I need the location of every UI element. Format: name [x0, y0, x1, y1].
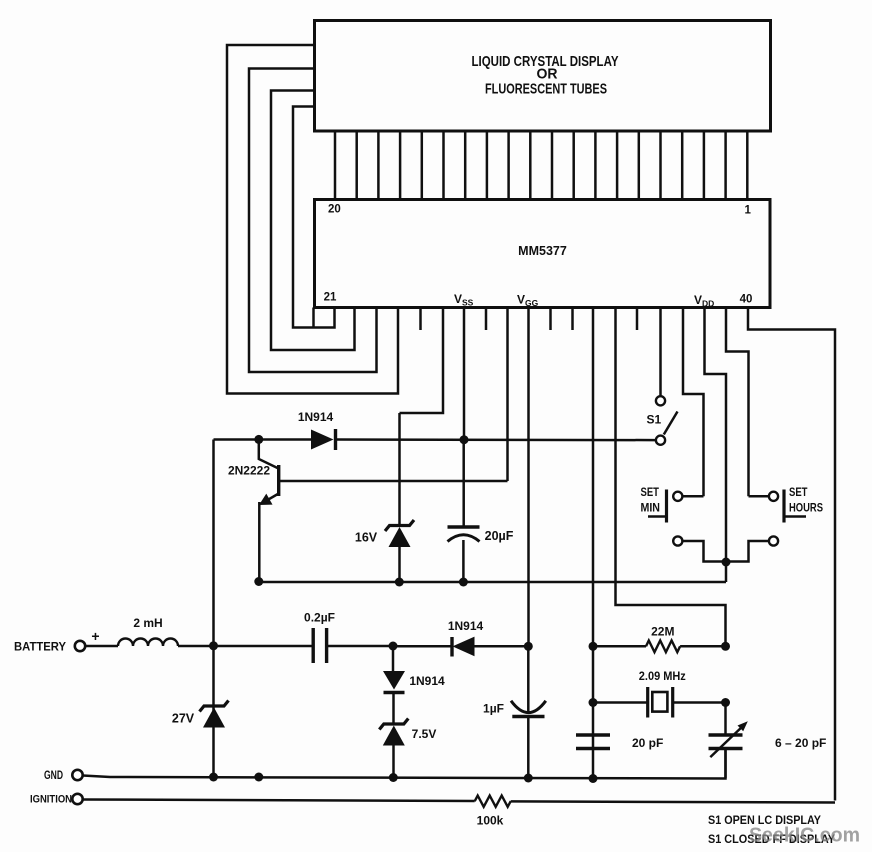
- stub pin at x=572.5: [571, 308, 574, 331]
- capacitor C1 20uF top lead: [462, 440, 465, 527]
- node dot battery riser: [209, 641, 218, 650]
- node dot crystal left: [589, 698, 598, 707]
- svg-text:S1: S1: [646, 413, 661, 427]
- wire osc pin down to crystal net left: [592, 308, 595, 779]
- wire L1 to battery node: [178, 645, 214, 648]
- svg-text:SeekIC.com: SeekIC.com: [749, 825, 860, 847]
- svg-text:GND: GND: [44, 770, 63, 782]
- svg-text:1N914: 1N914: [448, 619, 484, 633]
- wire SET HOURS bottom contact to junction: [726, 541, 769, 562]
- svg-text:FLUORESCENT TUBES: FLUORESCENT TUBES: [485, 81, 607, 98]
- stub pin at x=637: [636, 308, 639, 331]
- node dot 22M right: [721, 642, 730, 651]
- wire nested bus N3: [249, 69, 377, 373]
- diode D2 1N914 (horizontal, battery row): [450, 637, 453, 657]
- switch S1 bottom contact: [656, 436, 665, 445]
- wire D1 cathode to S1: [336, 438, 656, 441]
- svg-text:BATTERY: BATTERY: [14, 640, 66, 654]
- terminal GND: [72, 770, 82, 780]
- transistor Q1 emitter arrow: [259, 494, 273, 505]
- svg-text:MIN: MIN: [641, 503, 661, 515]
- svg-text:20: 20: [328, 204, 341, 216]
- node dot 20uF row582: [459, 578, 468, 587]
- wire battery riser to D1 row: [214, 438, 312, 441]
- svg-text:20µF: 20µF: [485, 529, 514, 543]
- svg-text:16V: 16V: [355, 531, 378, 545]
- node dot GND 1uF: [524, 774, 533, 783]
- wire nested bus N4: [227, 45, 398, 394]
- wire nested bus N2: [271, 91, 355, 351]
- capacitor C3 bottom lead: [527, 717, 530, 779]
- wire osc pin jog to crystal net right: [616, 308, 726, 647]
- diode D1 1N914 (horizontal): [311, 430, 334, 450]
- switch SET MIN bottom contact: [673, 536, 682, 545]
- transistor Q1 base bar: [277, 465, 280, 496]
- capacitor C5 trim arrow: [710, 725, 744, 757]
- svg-text:1µF: 1µF: [483, 702, 504, 716]
- IC U1 MM5377 box: [315, 200, 771, 308]
- wire ignition row left: [83, 800, 475, 802]
- svg-text:2.09 MHz: 2.09 MHz: [639, 669, 686, 683]
- svg-text:+: +: [91, 628, 99, 644]
- svg-text:100k: 100k: [477, 814, 504, 828]
- svg-text:27V: 27V: [172, 712, 195, 726]
- switch S1 top contact: [656, 396, 665, 405]
- wire SET MIN top contact to pin wire: [683, 495, 704, 498]
- svg-text:20 pF: 20 pF: [632, 736, 663, 750]
- wire pin to S1 top: [659, 308, 662, 397]
- node dot 16V row582: [395, 578, 404, 587]
- node dot D2 anode: [389, 642, 398, 651]
- wire 7.5V zener to GND row: [392, 746, 395, 779]
- switch SET HOURS bottom contact: [769, 536, 778, 545]
- terminal BATTERY: [75, 641, 85, 651]
- wire pin to SET HOURS top: [726, 308, 749, 497]
- svg-text:SET: SET: [641, 487, 660, 499]
- svg-text:MM5377: MM5377: [518, 244, 567, 258]
- capacitor C3 1uF top lead: [527, 646, 530, 712]
- node dot crystal right: [721, 698, 730, 707]
- wire Q1 emitter down to node row 582: [258, 502, 261, 582]
- node dot GND 20pF: [589, 774, 598, 783]
- stub pin at x=550.5: [549, 308, 552, 331]
- inductor L1 2mH: [118, 639, 178, 646]
- svg-text:2N2222: 2N2222: [228, 464, 270, 478]
- node dot emitter row582: [254, 577, 263, 586]
- crystal Y1 2.09 MHz: [593, 701, 648, 704]
- capacitor C3 1uF plates: [511, 701, 546, 713]
- transistor Q1 collector lead: [259, 439, 278, 468]
- LCD display box: [315, 21, 771, 132]
- node dot GND emitter riser: [254, 773, 263, 782]
- wire D3 to zener 7.5V: [392, 693, 395, 725]
- resistor R2 100k: [475, 796, 511, 807]
- capacitor C4 20pF: [576, 733, 610, 737]
- wire SET HOURS top contact to pin wire: [749, 495, 769, 498]
- node dot GND zener branch: [389, 773, 398, 782]
- svg-text:1N914: 1N914: [298, 410, 334, 424]
- svg-text:40: 40: [740, 294, 753, 306]
- node dot set-switch junction: [722, 558, 731, 567]
- wire 16V zener top lead: [398, 413, 401, 526]
- wire pin to 16V zener jog: [400, 308, 444, 414]
- zener D5 16V: [385, 520, 414, 531]
- stub pin at x=486: [485, 308, 488, 331]
- capacitor C5 6-20pF variable: [724, 703, 727, 736]
- transistor Q1 emitter lead: [262, 494, 279, 504]
- wire battery node to C2: [214, 645, 314, 648]
- switch SET HOURS top contact: [769, 492, 778, 501]
- node dot Q1 collector: [254, 435, 263, 444]
- switch SET MIN top contact: [673, 492, 682, 501]
- svg-text:22M: 22M: [651, 625, 674, 639]
- wire 16V zener to node row 582: [398, 547, 401, 582]
- wire SET MIN bottom contact to junction: [683, 541, 726, 562]
- svg-text:1N914: 1N914: [409, 674, 445, 688]
- wire pin to SET MIN top: [683, 308, 704, 497]
- wire VSS pin down to node row: [463, 308, 466, 440]
- switch S1 lever: [664, 412, 678, 435]
- node dot GND battery riser: [209, 773, 218, 782]
- switch SET MIN bar: [665, 490, 668, 523]
- node dot VSS row: [460, 435, 469, 444]
- wire D2 cathode lead: [393, 645, 452, 648]
- zener D4 7.5V: [379, 719, 408, 730]
- zener D6 27V: [200, 701, 229, 712]
- wire GND row: [83, 749, 726, 779]
- wire pin21 drop to nested bus N1: [312, 308, 315, 328]
- svg-text:SET: SET: [789, 487, 808, 499]
- transistor Q1 base wire to VGG pin: [279, 480, 508, 483]
- diode D3 1N914 (vertical): [383, 671, 405, 690]
- wire D2 to 1uF node: [475, 645, 529, 648]
- node dot 1uF top: [524, 642, 533, 651]
- terminal IGNITION: [72, 794, 82, 804]
- svg-text:6 – 20 pF: 6 – 20 pF: [775, 736, 826, 750]
- wire nested bus N1 (pin to display edge): [293, 107, 335, 328]
- stub pin at x=420.5: [419, 308, 422, 331]
- svg-text:IGNITION: IGNITION: [30, 794, 72, 806]
- wire C2 to diode node: [327, 645, 393, 648]
- wire VDD pin to set-switch junction: [705, 308, 727, 583]
- switch SET HOURS bar: [782, 490, 785, 523]
- node dot 22M left: [589, 642, 598, 651]
- wire battery riser (vertical): [212, 440, 215, 778]
- svg-text:21: 21: [324, 292, 337, 304]
- wire pin (1uF leg) down to battery row: [527, 308, 530, 647]
- capacitor C1 bottom lead: [462, 540, 465, 582]
- svg-text:0.2µF: 0.2µF: [304, 611, 335, 625]
- diode D3 1N914 (vertical) lead: [392, 646, 395, 671]
- capacitor C2 0.2uF plates: [312, 628, 315, 663]
- wire node row 582: [259, 581, 726, 584]
- display segment bus wires (20 lines): [334, 131, 337, 200]
- wire battery terminal to L1: [86, 645, 119, 648]
- svg-text:2 mH: 2 mH: [133, 616, 162, 630]
- svg-text:HOURS: HOURS: [789, 503, 823, 515]
- svg-text:1: 1: [744, 204, 751, 216]
- wire pin 40 to ignition riser: [748, 308, 835, 801]
- wire VGG pin down to Q1 base: [506, 308, 509, 482]
- wire ignition row right: [511, 801, 835, 802]
- capacitor C1 20uF plates: [448, 525, 480, 528]
- svg-text:7.5V: 7.5V: [412, 727, 437, 741]
- resistor R1 22M: [593, 645, 646, 648]
